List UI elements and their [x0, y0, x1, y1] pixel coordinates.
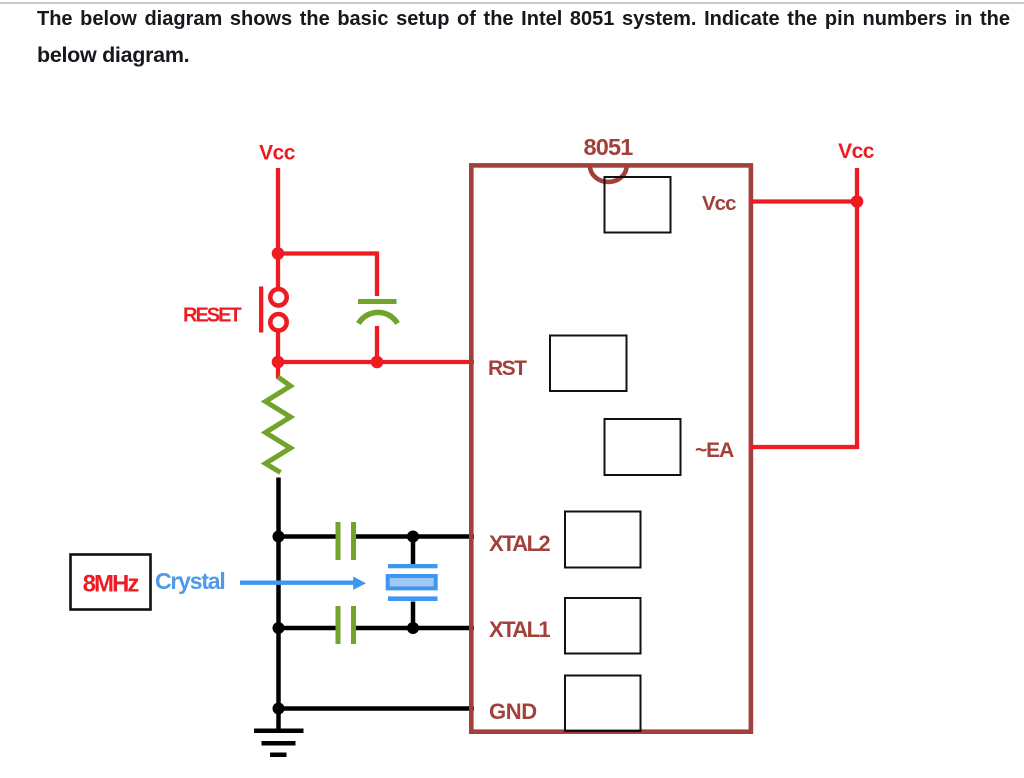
- IC U1 8051 body: [471, 165, 751, 731]
- wire switch to RST node: [276, 331, 280, 379]
- svg-text:RESET: RESET: [183, 305, 241, 327]
- wire crystal bottom link: [411, 602, 416, 629]
- pin box ~EA: [605, 419, 681, 475]
- box 8MHz: [71, 555, 151, 610]
- svg-text:Crystal: Crystal: [155, 568, 225, 594]
- node junction J2: [272, 356, 285, 369]
- capacitor C1 curved plate: [359, 312, 398, 323]
- svg-text:Vcc: Vcc: [702, 192, 736, 215]
- capacitor C2 plates: [336, 522, 357, 560]
- switch RESET actuator bar: [259, 287, 263, 333]
- title line 1: [37, 8, 1010, 31]
- wire capacitor branch lower: [375, 326, 379, 362]
- svg-text:XTAL1: XTAL1: [489, 617, 550, 642]
- pin box XTAL2: [565, 512, 641, 568]
- title line 2: [37, 43, 189, 68]
- pin box GND: [565, 676, 641, 732]
- capacitor C1 flat plate: [358, 299, 397, 304]
- svg-text:XTAL2: XTAL2: [489, 531, 550, 556]
- svg-text:GND: GND: [489, 699, 537, 724]
- node junction J6: [273, 703, 285, 715]
- wire J1 to capacitor branch: [278, 251, 377, 255]
- svg-text:Vcc: Vcc: [259, 142, 296, 165]
- wire Vcc pin to supply: [750, 199, 857, 203]
- crystal Y1: [388, 564, 438, 601]
- svg-text:Vcc: Vcc: [838, 140, 875, 163]
- pin box Vcc: [605, 177, 671, 233]
- node junction J5: [273, 622, 285, 634]
- wire right Vcc drop: [855, 168, 859, 447]
- wire RST to chip: [278, 360, 474, 364]
- svg-text:8051: 8051: [583, 134, 633, 160]
- wire crystal top link: [411, 537, 416, 566]
- svg-text:8MHz: 8MHz: [83, 571, 140, 598]
- svg-text:~EA: ~EA: [695, 439, 734, 462]
- arrow crystal pointer: [240, 577, 366, 590]
- wire XTAL2 left segment: [279, 534, 336, 539]
- resistor R1: [266, 377, 291, 473]
- wire XTAL2 right segment: [356, 534, 474, 539]
- wire main black drop: [276, 478, 281, 732]
- switch RESET contact bottom: [270, 314, 286, 330]
- wire XTAL1 left segment: [279, 626, 336, 631]
- node junction J1: [272, 247, 285, 260]
- ground symbol: [254, 729, 304, 758]
- capacitor C3 plates: [336, 606, 357, 644]
- node junction J4: [273, 531, 285, 543]
- IC notch: [590, 166, 627, 182]
- node junction J8: [407, 622, 419, 634]
- node junction J3: [371, 356, 384, 369]
- wire GND to chip: [279, 706, 475, 711]
- pin box XTAL1: [565, 598, 641, 654]
- node junction J9: [851, 195, 864, 208]
- node junction J7: [407, 531, 419, 543]
- wire left Vcc drop: [276, 168, 280, 288]
- wire capacitor branch upper: [375, 251, 379, 296]
- wire ~EA pin to supply: [750, 445, 859, 449]
- wire XTAL1 right segment: [356, 626, 474, 631]
- top rule: [0, 2, 1024, 4]
- svg-text:RST: RST: [488, 357, 527, 380]
- pin box RST: [550, 336, 627, 392]
- switch RESET contact top: [270, 289, 286, 305]
